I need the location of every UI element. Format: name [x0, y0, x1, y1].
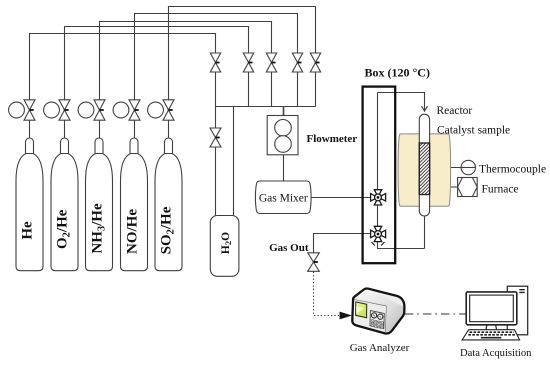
manifold valve V4 — [292, 53, 302, 72]
svg-text:Gas Mixer: Gas Mixer — [259, 193, 308, 205]
wire manifold to H2O bubbler inlet — [215, 107, 217, 216]
valve on H2O line — [210, 128, 221, 147]
flowmeter — [267, 116, 298, 155]
regulator circle cylinder 2 — [44, 102, 60, 118]
analyzer dial panel — [370, 311, 384, 329]
wire manifold to flowmeter — [283, 107, 285, 117]
thermocouple symbol — [461, 160, 475, 174]
valve cylinder 5 — [163, 100, 174, 120]
valve cylinder 4 — [129, 100, 140, 120]
H2O bubbler vessel — [210, 216, 239, 277]
furnace body (beige) — [398, 134, 451, 206]
svg-text:He: He — [20, 221, 36, 240]
svg-text:O2/He: O2/He — [55, 209, 73, 249]
svg-text:NO/He: NO/He — [125, 209, 141, 254]
wire furnace lead — [450, 186, 457, 188]
gas mixer — [255, 181, 311, 214]
manifold valve V3 — [266, 53, 276, 72]
wire gas mixer to 3-way valve TV1 — [311, 197, 373, 199]
wire gas line SO2/He cylinder to manifold valve V5 — [169, 7, 316, 139]
wire thermocouple lead — [430, 167, 462, 169]
wire gas out from 3-way valve TV2 — [314, 234, 373, 253]
computer tower — [507, 286, 527, 335]
reactor tube — [419, 114, 429, 216]
regulator circle cylinder 3 — [78, 102, 94, 118]
wire dash-dot analyzer to computer — [405, 313, 466, 315]
wire gas line NH3/He cylinder to manifold valve V3 — [100, 22, 272, 139]
svg-text:Flowmeter: Flowmeter — [307, 133, 358, 145]
svg-text:Gas Analyzer: Gas Analyzer — [350, 342, 410, 354]
wire gas line NO/He cylinder to manifold valve V4 — [135, 14, 298, 139]
svg-text:Furnace: Furnace — [482, 184, 519, 196]
wire H2O bubbler outlet to manifold — [233, 107, 235, 216]
manifold valve V2 — [243, 53, 253, 72]
valve cylinder 3 — [94, 100, 105, 120]
manifold valve V1 — [210, 53, 220, 72]
manifold valve V5 — [310, 53, 320, 72]
regulator circle cylinder 1 — [9, 102, 25, 118]
3-way valve TV1 — [371, 190, 386, 205]
regulator circle cylinder 5 — [148, 102, 164, 118]
wire bypass pipe inside box — [378, 93, 425, 249]
monitor stand — [486, 325, 497, 330]
computer monitor — [466, 292, 517, 325]
arrowhead into reactor — [422, 106, 428, 111]
svg-text:Box (120 °C): Box (120 °C) — [365, 66, 430, 80]
svg-text:Thermocouple: Thermocouple — [479, 164, 546, 176]
furnace symbol — [458, 178, 478, 197]
catalyst sample (hatched) — [419, 143, 429, 195]
svg-text:Catalyst sample: Catalyst sample — [437, 125, 510, 137]
gas out valve — [308, 253, 320, 271]
computer keyboard — [462, 330, 519, 340]
wire reactor bottom return — [424, 216, 426, 249]
gas cylinder 5 (SO2/He) — [155, 138, 182, 271]
valve cylinder 1 — [24, 100, 35, 120]
svg-text:Reactor: Reactor — [437, 105, 473, 117]
svg-text:Gas Out: Gas Out — [269, 242, 309, 254]
gas cylinder 3 (NH3/He) — [86, 138, 113, 271]
wire flowmeter to gas mixer — [283, 155, 285, 182]
wire box to reactor top — [378, 93, 425, 111]
wire dotted line gas-out valve to analyzer arrow — [314, 272, 341, 316]
wire gas line He cylinder to manifold valve V1 — [30, 34, 216, 139]
gas cylinder 1 (He) — [16, 138, 43, 271]
gas analyzer 3D body — [352, 288, 404, 333]
svg-text:Data Acquisition: Data Acquisition — [460, 348, 532, 359]
valve cylinder 2 — [59, 100, 70, 120]
gas cylinder 2 (O2/He) — [51, 138, 78, 271]
arrow into gas analyzer — [340, 312, 352, 320]
heated box (120 C) — [363, 87, 396, 264]
gas cylinder 4 (NO/He) — [121, 138, 148, 271]
regulator circle cylinder 4 — [113, 102, 129, 118]
wire manifold header — [216, 106, 316, 108]
actuator ticks under TV2 — [372, 242, 385, 246]
analyzer screen — [356, 302, 367, 318]
3-way valve TV2 — [371, 226, 386, 241]
wire gas line O2/He cylinder to manifold valve V2 — [65, 27, 249, 139]
